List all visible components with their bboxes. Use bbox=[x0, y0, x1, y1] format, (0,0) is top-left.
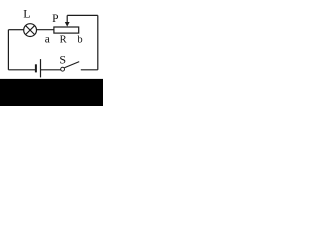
rheostat slider arrow P bbox=[65, 15, 70, 26]
svg-text:a: a bbox=[45, 34, 50, 46]
svg-text:b: b bbox=[77, 35, 82, 46]
wire bottom right to switch bbox=[81, 69, 98, 71]
svg-text:P: P bbox=[52, 13, 58, 25]
wire right vertical bbox=[97, 15, 99, 69]
wire lamp to rheostat bbox=[37, 29, 54, 31]
wire battery to switch bbox=[41, 69, 61, 71]
switch S bbox=[61, 62, 80, 72]
svg-text:S: S bbox=[59, 52, 66, 66]
wire left vertical bbox=[7, 30, 9, 70]
wire top from left corner to lamp bbox=[8, 29, 23, 31]
wire slider horizontal bbox=[67, 14, 98, 16]
lamp L bbox=[24, 24, 37, 37]
svg-text:L: L bbox=[23, 6, 30, 20]
battery bbox=[36, 59, 41, 77]
wire bottom left to battery bbox=[8, 69, 35, 71]
rheostat R body bbox=[54, 27, 79, 33]
black band bbox=[0, 79, 103, 106]
svg-text:R: R bbox=[60, 34, 67, 45]
